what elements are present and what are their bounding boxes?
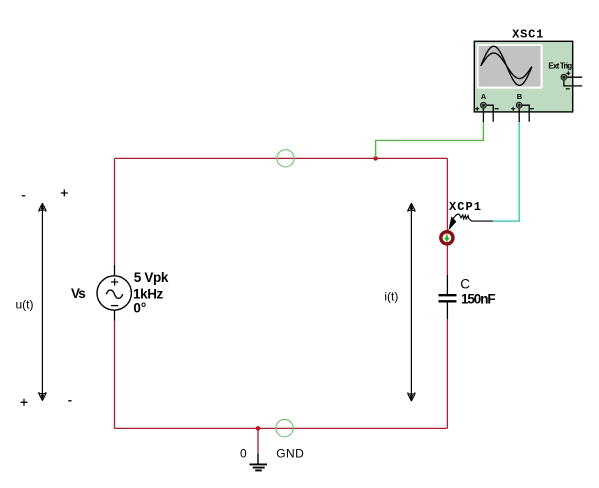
channel A minus sign <box>495 108 499 110</box>
current probe XCP1 center wire glimpse (red) <box>446 234 448 243</box>
oscilloscope XSC1 body <box>474 41 572 112</box>
channel A pin stub <box>483 105 493 122</box>
wire bottom (red) <box>115 427 448 429</box>
svg-text:0°: 0° <box>133 300 146 315</box>
wire right upper (red) <box>446 158 448 275</box>
current probe XCP1 lead wire (black with coil) <box>453 214 493 221</box>
ext trig pin wire right <box>566 76 582 78</box>
voltage source Vs pin top (black) <box>114 265 116 277</box>
svg-text:C: C <box>460 277 470 292</box>
wire top (red) <box>115 157 448 159</box>
svg-text:GND: GND <box>276 447 304 461</box>
oscilloscope waveform inner sine <box>481 53 532 79</box>
voltage source minus sign <box>111 305 118 307</box>
annotation arrow i(t) (double headed) <box>410 207 412 397</box>
voltage source sine symbol <box>106 290 122 298</box>
voltage source Vs pin bottom (black) <box>114 310 116 321</box>
annotation plus (bottom left of u(t)) <box>21 399 28 406</box>
oscilloscope screen gray <box>479 46 541 87</box>
connector circle bottom wire (green) <box>276 419 293 436</box>
oscilloscope waveform outer sine <box>481 46 532 85</box>
wire left upper (red) <box>114 158 116 265</box>
current probe XCP1 pointer nib (black) <box>448 216 456 230</box>
channel B plus sign <box>511 107 515 111</box>
svg-text:150nF: 150nF <box>461 291 496 306</box>
ground pin (black) <box>257 454 259 464</box>
wire ground stub (red) <box>257 428 259 454</box>
current probe XCP1 arrow (green, pointing down) <box>446 236 448 238</box>
svg-text:i(t): i(t) <box>384 290 398 304</box>
svg-text:Ext Trig: Ext Trig <box>548 61 572 70</box>
wire cyan halo <box>492 122 519 221</box>
capacitor C1 pin top (black) <box>446 275 448 294</box>
channel B pin stub <box>519 105 529 122</box>
connector circle top wire (green) <box>277 150 294 167</box>
svg-text:XCP1: XCP1 <box>449 200 481 214</box>
svg-text:XSC1: XSC1 <box>512 27 543 41</box>
current probe XCP1 ring <box>441 232 453 244</box>
svg-text:u(t): u(t) <box>16 298 34 312</box>
svg-text:A: A <box>481 92 487 101</box>
ext trig pin wire L <box>564 80 582 86</box>
wire right lower (red) <box>446 319 448 428</box>
channel A terminal <box>480 102 487 109</box>
svg-text:5 Vpk: 5 Vpk <box>134 270 169 285</box>
svg-text:Vs: Vs <box>71 286 86 301</box>
annotation minus (top left of u(t)) <box>22 195 25 197</box>
annotation plus (top right of u(t)) <box>61 190 68 197</box>
node junction top (red dot) <box>373 156 378 161</box>
ext trig minus sign <box>566 88 570 90</box>
channel A pin down <box>482 105 484 122</box>
capacitor C1 top plate <box>439 294 457 296</box>
wire green (scope channel A to top node) <box>376 122 484 158</box>
channel A plus sign <box>475 107 479 111</box>
ext trig plus sign <box>566 71 570 75</box>
wire left lower (red) <box>114 321 116 429</box>
voltage source plus sign <box>111 278 118 285</box>
wire cyan (scope channel B to current probe) <box>492 122 519 221</box>
voltage source Vs body <box>97 276 131 310</box>
ground symbol bars <box>250 464 268 470</box>
channel B minus sign <box>530 108 534 110</box>
node junction bottom (red dot) <box>256 426 261 431</box>
svg-text:B: B <box>517 92 523 101</box>
channel B terminal <box>516 102 523 109</box>
annotation minus (bottom right of u(t)) <box>68 400 71 402</box>
capacitor C1 pin bottom (black) <box>446 302 448 319</box>
channel B pin down <box>518 105 520 122</box>
capacitor C1 bottom plate <box>439 300 457 302</box>
annotation arrow u(t) (left, double headed) <box>41 207 43 397</box>
svg-text:0: 0 <box>240 447 247 461</box>
ext trig terminal <box>561 74 568 81</box>
oscilloscope screen white frame <box>477 44 543 88</box>
